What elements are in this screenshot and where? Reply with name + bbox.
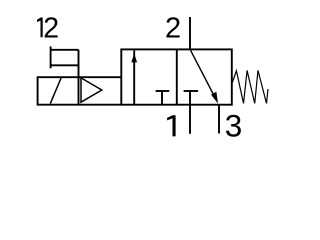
pilot triangle [81,78,102,102]
solenoid coil diagonal [50,77,61,104]
svg-text:3: 3 [225,108,243,144]
port 2 connection line [189,17,191,49]
port 3 connection line [218,105,220,134]
svg-text:2: 2 [165,13,181,45]
blocked port T (port 1, rest box) [184,91,199,105]
svg-text:2: 2 [43,12,59,44]
blocked port T (port 3, actuated box) [156,91,170,105]
label 1 [167,115,176,136]
flow arrowhead up [131,54,137,63]
flow arrowhead on diagonal [211,92,218,104]
position divider [176,49,178,104]
valve body outline (two position boxes) [121,49,232,104]
spring return [232,70,268,103]
solenoid / pilot divider [78,77,80,105]
actuated-position flow line 1 to 2 [133,51,135,105]
port 1 connection line [189,105,191,134]
label 12 [37,12,59,44]
pilot passage symbol (port 12) [51,46,79,77]
flow path 2 to 3 diagonal [191,50,215,96]
solenoid assembly box [38,77,122,105]
